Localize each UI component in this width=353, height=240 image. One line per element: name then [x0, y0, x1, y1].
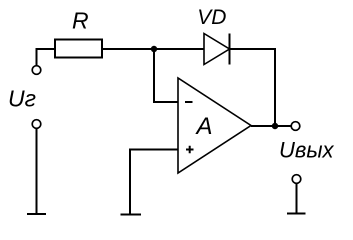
wire: diode cathode right and down to output node	[230, 49, 276, 126]
ground bar (non-inverting input)	[121, 214, 142, 216]
resistor R body	[55, 40, 102, 58]
wire: resistor to diode anode	[102, 48, 204, 50]
wire: feedback junction down to inverting input	[154, 49, 178, 102]
svg-text:Uвых: Uвых	[279, 138, 335, 163]
svg-text:VD: VD	[197, 6, 226, 29]
op-amp inverting input minus sign	[185, 101, 193, 103]
op-amp non-inverting input plus sign	[186, 146, 194, 154]
wire: ground to non-inverting input	[130, 150, 178, 215]
diode VD anode triangle	[204, 34, 230, 65]
wire: input reference terminal down to ground	[36, 128, 38, 213]
op-amp A triangle	[178, 78, 251, 173]
node: junction resistor/diode/feedback	[151, 46, 157, 52]
node: output junction	[272, 123, 278, 129]
input reference terminal circle	[32, 120, 41, 129]
ground bar (output side)	[287, 213, 306, 215]
svg-text:A: A	[195, 113, 213, 140]
svg-text:R: R	[72, 8, 89, 34]
wire: lower output terminal down to ground	[296, 183, 298, 213]
svg-text:Uг: Uг	[8, 86, 36, 112]
lower output reference terminal circle	[292, 175, 301, 184]
wire: input terminal up and right to resistor	[37, 49, 56, 66]
input terminal (upper circle, Uг hot lead)	[32, 66, 41, 75]
diode VD cathode bar	[229, 34, 231, 65]
wire: op-amp output to output terminal	[251, 125, 291, 127]
ground bar (input side)	[27, 213, 46, 215]
output terminal circle	[291, 122, 300, 131]
